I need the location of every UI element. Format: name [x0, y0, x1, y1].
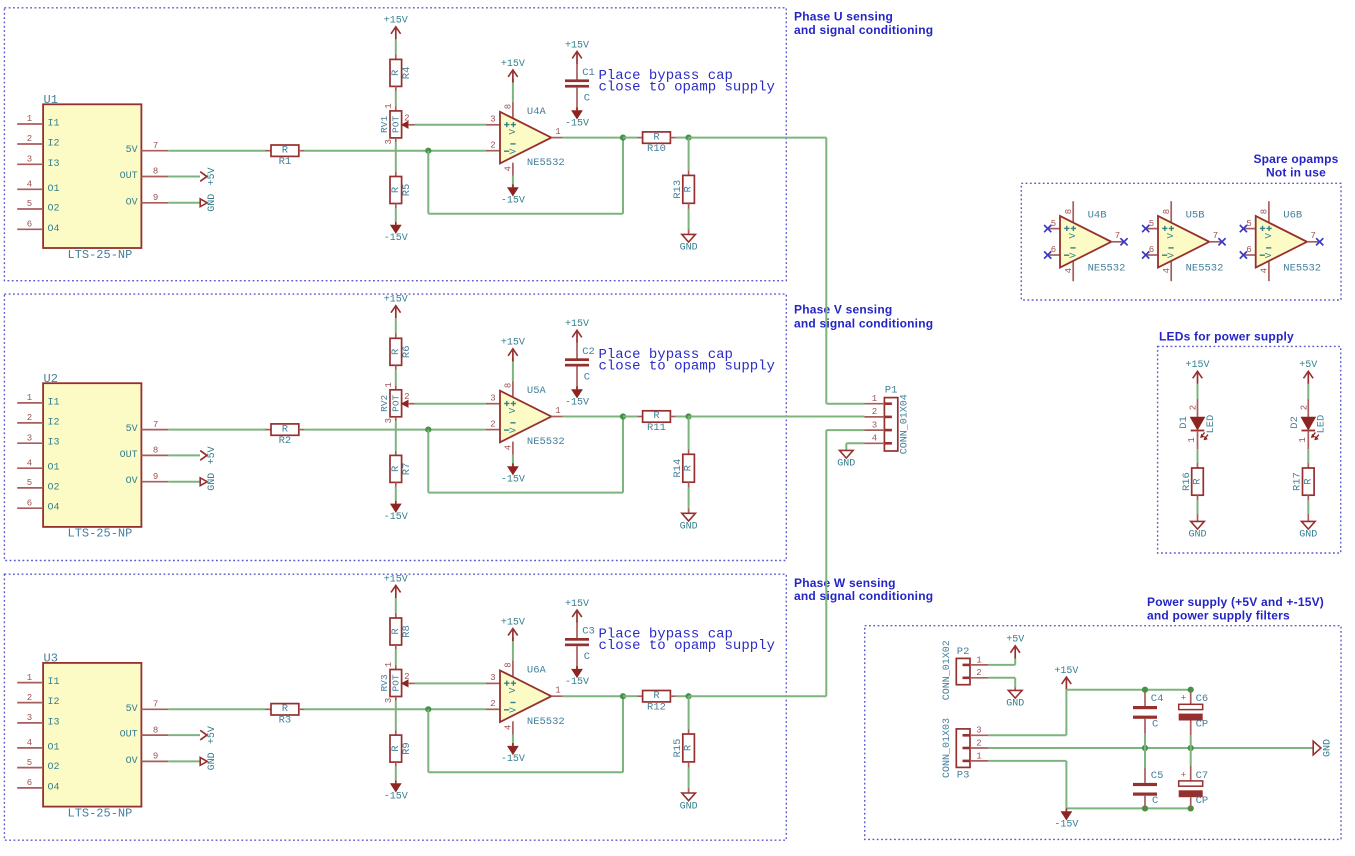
svg-text:OV: OV: [126, 756, 138, 767]
svg-text:R8: R8: [401, 625, 413, 638]
svg-text:and signal conditioning: and signal conditioning: [794, 316, 933, 330]
resistor R5: [390, 172, 413, 208]
svg-text:+5V: +5V: [1299, 360, 1317, 371]
svg-text:+15V: +15V: [565, 599, 589, 610]
svg-text:GND: GND: [207, 473, 218, 491]
wire: [512, 358, 514, 381]
power flag +5V (sensor OUT): [200, 726, 218, 744]
svg-text:Not in use: Not in use: [1266, 166, 1326, 180]
svg-text:8: 8: [153, 725, 158, 735]
svg-text:I2: I2: [48, 417, 60, 428]
svg-text:4: 4: [1064, 268, 1074, 273]
svg-text:3: 3: [27, 155, 32, 165]
svg-text:5: 5: [27, 478, 32, 488]
junction node (+15V rail / C6): [1188, 687, 1194, 693]
svg-text:+5V: +5V: [1006, 635, 1024, 646]
wire: [563, 137, 623, 139]
junction node (-15V rail / C7): [1188, 805, 1194, 811]
svg-text:OV: OV: [126, 476, 138, 487]
svg-text:LTS-25-NP: LTS-25-NP: [68, 248, 133, 262]
ground GND (filter mid-rail): [1313, 739, 1333, 757]
svg-text:+15V: +15V: [565, 319, 589, 330]
svg-text:GND: GND: [1006, 699, 1024, 710]
svg-text:3: 3: [384, 698, 394, 703]
svg-text:3: 3: [490, 393, 495, 403]
current sensor U1 LTS-25-NP: [17, 93, 168, 262]
svg-text:LED: LED: [1316, 415, 1328, 434]
power flag +5V (sensor OUT): [200, 167, 218, 185]
svg-text:6: 6: [27, 778, 32, 788]
svg-text:R17: R17: [1292, 472, 1304, 491]
wire: [1307, 449, 1309, 463]
svg-text:U6B: U6B: [1283, 209, 1302, 221]
no-connect flag (pin 5): [1142, 225, 1149, 232]
svg-text:C: C: [584, 93, 590, 105]
connector P1 CONN_01X04: [865, 385, 911, 455]
svg-text:V: V: [509, 427, 519, 433]
wire: [395, 701, 397, 731]
power flag -15V (bypass cap): [572, 111, 582, 119]
svg-text:2: 2: [490, 699, 495, 709]
svg-text:GND: GND: [207, 752, 218, 770]
wire: [1307, 384, 1309, 399]
power flag -15V (op-amp V-): [508, 467, 518, 475]
svg-text:V: V: [1264, 252, 1274, 258]
resistor R7: [390, 451, 413, 487]
junction node (inverting input): [425, 706, 431, 712]
wire: [395, 318, 397, 333]
svg-text:8: 8: [153, 446, 158, 456]
ground GND (sensor OV): [200, 194, 218, 212]
svg-text:9: 9: [153, 752, 158, 762]
svg-text:6: 6: [27, 498, 32, 508]
svg-text:4: 4: [27, 180, 32, 190]
wire: [395, 421, 397, 451]
svg-text:NE5532: NE5532: [1283, 263, 1321, 275]
svg-text:R1: R1: [279, 156, 292, 168]
svg-text:D2: D2: [1289, 416, 1301, 429]
svg-text:LTS-25-NP: LTS-25-NP: [68, 806, 133, 820]
junction node (op-amp output): [620, 135, 626, 141]
svg-text:OUT: OUT: [120, 730, 138, 741]
svg-text:8: 8: [503, 104, 513, 109]
svg-text:GND: GND: [680, 522, 698, 533]
svg-text:CP: CP: [1196, 795, 1209, 807]
svg-text:R: R: [1192, 478, 1204, 485]
svg-text:8: 8: [503, 383, 513, 388]
resistor R13: [672, 170, 695, 209]
svg-text:8: 8: [503, 662, 513, 667]
svg-text:Phase W sensing: Phase W sensing: [794, 576, 896, 590]
junction node (output divider): [686, 693, 692, 699]
capacitor C2 C: [565, 343, 595, 390]
wire: [1144, 733, 1146, 748]
svg-text:2: 2: [872, 407, 877, 417]
no-connect flag (pin 6): [1240, 251, 1247, 258]
svg-text:+15V: +15V: [565, 40, 589, 51]
wire: [563, 695, 623, 697]
svg-text:6: 6: [1246, 245, 1251, 255]
svg-text:5V: 5V: [126, 704, 138, 715]
resistor R4: [390, 54, 413, 91]
capacitor C6 CP (polarized): [1179, 691, 1209, 735]
svg-text:+: +: [1181, 771, 1186, 781]
svg-text:RV3: RV3: [379, 674, 390, 691]
svg-text:C4: C4: [1151, 693, 1164, 705]
note: Phase U title: [794, 9, 933, 37]
svg-text:+15V: +15V: [501, 59, 525, 70]
svg-text:1: 1: [555, 127, 560, 137]
svg-text:O4: O4: [48, 503, 60, 514]
svg-text:V: V: [1069, 252, 1079, 258]
junction node (GND row / C6-C7): [1188, 745, 1194, 751]
wire: [688, 417, 690, 450]
junction node (+15V rail / C4): [1142, 687, 1148, 693]
ground GND (below R17): [1299, 514, 1317, 541]
svg-text:7: 7: [1115, 231, 1120, 241]
svg-text:U1: U1: [44, 93, 58, 107]
wire: [689, 695, 827, 697]
power flag -15V (divider bottom): [391, 784, 401, 792]
wire: [168, 176, 200, 178]
svg-text:+5V: +5V: [207, 167, 218, 185]
wire: [512, 735, 514, 747]
svg-text:POT: POT: [391, 674, 402, 691]
power flag -15V (op-amp V-): [508, 188, 518, 196]
wire: [988, 760, 1066, 762]
wire: [395, 650, 397, 665]
svg-text:NE5532: NE5532: [527, 716, 565, 728]
svg-text:1: 1: [976, 655, 981, 665]
wire: [623, 416, 637, 418]
svg-text:R6: R6: [401, 345, 413, 358]
svg-text:V: V: [1068, 233, 1078, 239]
op-amp U5B NE5532 (spare): [1146, 201, 1224, 281]
svg-text:+15V: +15V: [384, 16, 408, 27]
svg-text:6: 6: [1149, 245, 1154, 255]
svg-text:OV: OV: [126, 197, 138, 208]
wire: [415, 124, 487, 126]
svg-text:R4: R4: [401, 67, 413, 80]
dashed group border: Phase W block: [4, 574, 786, 840]
capacitor C3 C: [565, 623, 595, 670]
svg-text:R: R: [282, 144, 289, 156]
svg-text:close to opamp supply: close to opamp supply: [599, 359, 775, 375]
wire: [689, 416, 865, 418]
svg-text:Power supply (+5V and +-15V): Power supply (+5V and +-15V): [1147, 595, 1324, 609]
svg-text:V: V: [1167, 252, 1177, 258]
svg-text:CONN_01X04: CONN_01X04: [900, 394, 911, 454]
svg-text:1: 1: [384, 103, 394, 108]
svg-text:5V: 5V: [126, 145, 138, 156]
svg-text:9: 9: [153, 472, 158, 482]
resistor R8: [390, 613, 413, 650]
connector P3 CONN_01X03: [942, 718, 989, 782]
ground GND (P2 pin 2): [1006, 687, 1024, 710]
svg-text:2: 2: [490, 419, 495, 429]
svg-text:POT: POT: [391, 116, 402, 133]
wire: [676, 137, 689, 139]
op-amp U6B NE5532 (spare): [1243, 201, 1321, 281]
svg-text:OUT: OUT: [120, 171, 138, 182]
resistor R17: [1292, 463, 1315, 501]
svg-text:2: 2: [404, 672, 409, 682]
svg-text:2: 2: [27, 134, 32, 144]
power flag -15V (bypass cap): [572, 390, 582, 398]
junction node (op-amp output): [620, 693, 626, 699]
svg-text:+15V: +15V: [384, 574, 408, 585]
op-amp U4B NE5532 (spare): [1048, 201, 1126, 281]
svg-text:2: 2: [976, 738, 981, 748]
svg-text:3: 3: [490, 673, 495, 683]
svg-text:1: 1: [27, 673, 32, 683]
wire: [168, 481, 200, 483]
svg-text:C3: C3: [582, 626, 595, 638]
no-connect flag (pin 5): [1240, 225, 1247, 232]
svg-text:C6: C6: [1196, 693, 1209, 705]
dashed group border: Phase V block: [4, 294, 786, 560]
svg-text:LEDs for power supply: LEDs for power supply: [1159, 330, 1294, 344]
svg-text:+15V: +15V: [501, 338, 525, 349]
svg-text:D1: D1: [1178, 416, 1190, 429]
svg-text:4: 4: [1162, 268, 1172, 273]
svg-text:1: 1: [872, 394, 877, 404]
svg-text:R: R: [282, 423, 289, 435]
svg-text:R: R: [653, 690, 660, 702]
svg-text:-15V: -15V: [384, 233, 408, 244]
svg-text:I3: I3: [48, 717, 60, 728]
svg-text:R13: R13: [672, 180, 684, 199]
svg-text:U3: U3: [44, 652, 58, 666]
svg-text:U4A: U4A: [527, 106, 547, 118]
svg-text:I1: I1: [48, 677, 60, 688]
wire: [988, 734, 1066, 736]
no-connect flag (pin 6): [1142, 251, 1149, 258]
svg-text:O2: O2: [48, 204, 60, 215]
svg-text:NE5532: NE5532: [527, 436, 565, 448]
wire: [623, 137, 637, 139]
wire: [845, 443, 847, 450]
wire: [988, 677, 1015, 679]
svg-text:O1: O1: [48, 742, 60, 753]
note: bypass cap placement: [599, 68, 775, 96]
connector P2 CONN_01X02: [942, 640, 989, 700]
wire: [168, 429, 265, 431]
wire: [415, 403, 487, 405]
svg-text:I3: I3: [48, 438, 60, 449]
svg-text:C: C: [1152, 795, 1158, 807]
svg-text:1: 1: [1187, 437, 1197, 442]
junction node (op-amp output): [620, 413, 626, 419]
resistor R12: [637, 690, 676, 714]
svg-text:1: 1: [555, 406, 560, 416]
resistor R10: [637, 131, 676, 155]
svg-text:+15V: +15V: [501, 617, 525, 628]
note: spare opamps title: [1253, 152, 1338, 180]
no-connect flag (pin 7): [1218, 238, 1225, 245]
svg-text:R2: R2: [279, 435, 292, 447]
wire: [688, 138, 690, 171]
svg-text:GND: GND: [680, 801, 698, 812]
svg-text:4: 4: [503, 166, 513, 171]
svg-text:R: R: [653, 410, 660, 422]
wire: [428, 213, 623, 215]
svg-text:I2: I2: [48, 139, 60, 150]
note: Phase V title: [794, 303, 933, 331]
capacitor C7 CP (polarized): [1179, 766, 1209, 808]
wire: [1014, 658, 1016, 665]
svg-text:RV1: RV1: [379, 116, 390, 133]
svg-text:-15V: -15V: [384, 792, 408, 803]
svg-text:3: 3: [27, 713, 32, 723]
svg-text:3: 3: [27, 433, 32, 443]
power flag -15V (P3): [1062, 812, 1072, 820]
op-amp U5A NE5532: [486, 381, 565, 455]
wire: [1307, 500, 1309, 514]
wire: [304, 429, 486, 431]
svg-text:P3: P3: [957, 770, 970, 782]
svg-text:P2: P2: [957, 646, 970, 658]
svg-text:RV2: RV2: [379, 394, 390, 411]
svg-text:2: 2: [27, 413, 32, 423]
svg-text:U6A: U6A: [527, 665, 547, 677]
wire: [688, 696, 690, 729]
svg-text:1: 1: [976, 751, 981, 761]
svg-text:-15V: -15V: [1054, 820, 1078, 831]
resistor R6: [390, 333, 413, 370]
current sensor U3 LTS-25-NP: [17, 652, 168, 821]
svg-text:4: 4: [503, 725, 513, 730]
wire: [304, 150, 486, 152]
svg-text:2: 2: [490, 140, 495, 150]
power flag +5V (sensor OUT): [200, 446, 218, 464]
svg-text:6: 6: [27, 220, 32, 230]
svg-text:2: 2: [1189, 405, 1199, 410]
junction node (-15V rail / C5): [1142, 805, 1148, 811]
svg-text:5: 5: [1051, 219, 1056, 229]
svg-text:-15V: -15V: [501, 754, 525, 765]
svg-text:V: V: [1166, 233, 1176, 239]
svg-text:LED: LED: [1205, 415, 1217, 434]
svg-text:I1: I1: [48, 119, 60, 130]
svg-text:V: V: [509, 148, 519, 154]
note: Phase W title: [794, 576, 933, 603]
svg-text:Phase U sensing: Phase U sensing: [794, 9, 893, 23]
resistor R1: [265, 144, 304, 168]
svg-text:GND: GND: [1322, 739, 1333, 757]
svg-text:+15V: +15V: [384, 295, 408, 306]
wire: [395, 767, 397, 781]
svg-text:R: R: [683, 744, 695, 751]
svg-text:1: 1: [384, 382, 394, 387]
svg-text:P1: P1: [885, 385, 898, 397]
svg-text:-15V: -15V: [565, 119, 589, 130]
svg-text:-15V: -15V: [565, 398, 589, 409]
wire: [1197, 449, 1199, 463]
svg-text:O4: O4: [48, 224, 60, 235]
wire: [688, 488, 690, 509]
svg-text:7: 7: [153, 700, 158, 710]
svg-text:GND: GND: [1299, 530, 1317, 541]
svg-text:C5: C5: [1151, 770, 1164, 782]
svg-text:2: 2: [404, 392, 409, 402]
wire: [304, 708, 486, 710]
svg-text:8: 8: [153, 167, 158, 177]
svg-text:O1: O1: [48, 184, 60, 195]
resistor R9: [390, 731, 413, 767]
wire: [825, 430, 827, 696]
wire: [512, 176, 514, 188]
svg-text:5: 5: [27, 199, 32, 209]
svg-text:R11: R11: [647, 422, 666, 434]
svg-text:NE5532: NE5532: [527, 157, 565, 169]
svg-text:NE5532: NE5532: [1088, 263, 1126, 275]
svg-text:3: 3: [384, 418, 394, 423]
svg-text:LTS-25-NP: LTS-25-NP: [68, 527, 133, 541]
svg-text:4: 4: [27, 738, 32, 748]
wire: [428, 771, 623, 773]
wire: [395, 370, 397, 385]
wire: [676, 695, 689, 697]
current sensor U2 LTS-25-NP: [17, 372, 168, 541]
svg-text:R: R: [683, 185, 695, 192]
wire: [512, 638, 514, 661]
wire: [168, 454, 200, 456]
wire: [395, 91, 397, 106]
svg-text:3: 3: [384, 139, 394, 144]
no-connect flag (pin 5): [1044, 225, 1051, 232]
svg-text:close to opamp supply: close to opamp supply: [599, 80, 775, 96]
junction node (output divider): [686, 135, 692, 141]
junction node (output divider): [686, 413, 692, 419]
LED D2: [1289, 399, 1328, 449]
svg-text:3: 3: [976, 726, 981, 736]
wire: [168, 202, 200, 204]
svg-text:GND: GND: [680, 243, 698, 254]
wire: [168, 734, 200, 736]
svg-text:3: 3: [872, 420, 877, 430]
svg-text:and power supply filters: and power supply filters: [1147, 609, 1290, 623]
capacitor C1 C: [565, 64, 595, 111]
svg-text:R9: R9: [401, 742, 413, 755]
LED D1: [1178, 399, 1217, 449]
svg-text:R7: R7: [401, 463, 413, 476]
svg-text:1: 1: [1298, 437, 1308, 442]
wire: [395, 598, 397, 613]
wire: [168, 708, 265, 710]
wire: [622, 417, 624, 493]
svg-text:1: 1: [27, 393, 32, 403]
svg-text:C: C: [584, 372, 590, 384]
wire: [395, 39, 397, 54]
svg-text:1: 1: [27, 114, 32, 124]
wire: [689, 137, 827, 139]
svg-text:I1: I1: [48, 397, 60, 408]
ground GND (output divider): [680, 788, 698, 812]
svg-text:O2: O2: [48, 762, 60, 773]
svg-text:3: 3: [490, 115, 495, 125]
svg-text:-15V: -15V: [565, 677, 589, 688]
no-connect flag (pin 7): [1316, 238, 1323, 245]
dashed group border: spare opamps: [1021, 183, 1341, 300]
svg-text:2: 2: [1299, 405, 1309, 410]
svg-text:5: 5: [1246, 219, 1251, 229]
svg-text:R: R: [1302, 478, 1314, 485]
svg-text:+5V: +5V: [207, 446, 218, 464]
svg-text:-15V: -15V: [384, 512, 408, 523]
svg-text:4: 4: [872, 434, 877, 444]
wire: [1144, 748, 1146, 768]
